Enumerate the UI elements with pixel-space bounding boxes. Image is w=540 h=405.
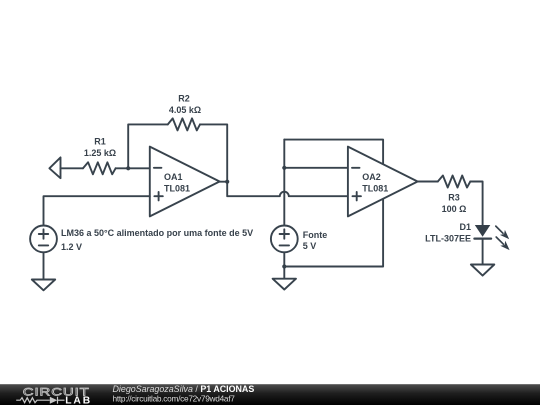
node A dot [126,166,130,170]
svg-text:TL081: TL081 [362,184,388,194]
svg-text:OA1: OA1 [164,172,183,182]
wire R3 to LED [470,182,482,226]
OA1 plus marker [154,195,162,197]
resistor R2 [168,118,200,130]
svg-text:http://circuitlab.com/ce72v79w: http://circuitlab.com/ce72v79wd4af7 [113,394,236,404]
node B dot [282,166,286,170]
op-amp OA2 [348,147,418,217]
voltage source LM36 [30,226,57,253]
junction dots [126,166,286,269]
svg-text:LM36 a 50°C alimentado por uma: LM36 a 50°C alimentado por uma fonte de … [61,228,253,238]
svg-text:R2: R2 [178,94,190,104]
top rail 5V to OA2 V+ [284,140,383,165]
node flag arrow (left terminal) [49,157,60,178]
svg-text:4.05 kΩ: 4.05 kΩ [169,105,201,115]
wire Fonte minus to ground [283,252,285,278]
resistor R1 [83,162,116,174]
op-amp OA1 [150,147,220,217]
ground (LED) [471,265,494,276]
svg-text:5 V: 5 V [303,241,317,251]
svg-text:TL081: TL081 [164,184,190,194]
wire LM36 minus to ground [43,252,45,279]
wire LED to ground [482,239,484,265]
ground (Fonte) [273,279,296,290]
ground (LM36) [32,280,55,291]
wire node B to OA2 inverting input [284,167,348,169]
voltage source Fonte [271,226,298,253]
svg-text:Fonte: Fonte [303,230,328,240]
OA1 output stub [220,181,228,183]
OA2 minus marker [352,167,360,169]
svg-text:OA2: OA2 [362,172,381,182]
wire node A up to R2 [128,124,168,168]
svg-text:1.25 kΩ: 1.25 kΩ [84,148,116,158]
OA2 output stub [418,181,438,183]
svg-text:LTL-307EE: LTL-307EE [425,234,471,244]
svg-text:DiegoSaragozaSilva / P1 ACIONA: DiegoSaragozaSilva / P1 ACIONAS [113,384,255,394]
wire OA1 output down and right to OA2 plus input (with hop) [227,182,348,197]
wire R2 to output node [200,124,227,181]
svg-text:R1: R1 [94,136,106,146]
LED D1 [475,225,491,237]
LED arrows [496,226,510,250]
ground net dot [282,264,286,268]
svg-text:LAB: LAB [65,396,92,405]
OA2 plus marker [353,195,361,197]
wire flag to R1 [61,167,84,169]
OA1 output node dot [225,180,229,184]
svg-text:D1: D1 [459,222,471,232]
resistor R3 [438,176,471,188]
wire rail down to Fonte plus [283,140,285,226]
OA1 minus marker [154,167,162,169]
svg-text:1.2 V: 1.2 V [61,242,82,252]
wire R1 to node A [116,167,129,169]
CircuitLab logo [16,385,92,405]
svg-text:R3: R3 [448,192,460,202]
wire LM36 plus to OA1 noninverting [44,196,150,225]
svg-text:100 Ω: 100 Ω [442,204,467,214]
wire node A to OA1 inverting input [128,167,150,169]
wire OA2 V- down to ground net [284,199,383,267]
